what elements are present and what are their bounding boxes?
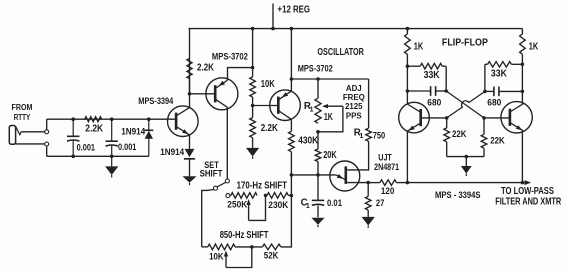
wire right coupling column [484,64,486,91]
wire Q4 emitter down [406,131,408,182]
svg-text:1: 1 [310,107,314,114]
svg-text:2125: 2125 [345,102,363,111]
ground (input network) [111,156,113,166]
junction pot R1 top [316,77,320,81]
wire 750 to UJT base-2 [347,141,368,170]
pot R19 wiper arrow [224,251,228,257]
junction QL collector / 680 [406,89,410,93]
wire C1 bottom lead [317,206,319,218]
svg-text:MPS - 3394S: MPS - 3394S [435,190,481,201]
wire input signal line [47,118,176,120]
junction C3 bottom / ground tap [110,155,114,159]
resistor R8 750 [366,128,372,141]
wire 120 to flip-flop [396,182,407,184]
wire top terminal up to signal line [46,119,48,130]
wire Q4 base [421,117,447,119]
capacitor C4 680 (left) [407,90,430,92]
svg-text:10K: 10K [261,79,275,90]
capacitor C5 680 (right) [485,90,494,92]
svg-text:FLIP-FLOP: FLIP-FLOP [442,37,488,48]
svg-text:33K: 33K [424,70,440,81]
wire R3 bottom to Q1 collector segment [189,79,191,94]
wire feed line down to 750 [368,79,370,128]
resistor R16 22K (right) [481,134,487,148]
svg-text:22K: 22K [452,129,467,140]
jack J1 tip [16,126,22,135]
resistor R14 33K (right) [485,63,488,65]
ground (Q1 emitter) [183,176,197,183]
resistor R20 52K [262,244,280,250]
junction Q2 emitter / divider line [251,66,255,70]
svg-text:250K: 250K [227,200,247,211]
wire R3 top to rail [189,29,191,59]
pot R1 wiper arrow [322,104,328,108]
svg-text:MPS-3394: MPS-3394 [138,96,174,107]
svg-text:170-Hz SHIFT: 170-Hz SHIFT [237,180,287,191]
wire 27 top lead [367,183,369,197]
svg-text:1N914: 1N914 [160,147,185,157]
wire pot R1 wiper loop [318,106,343,132]
ground (C1) [311,218,324,225]
svg-text:20K: 20K [323,150,337,161]
wire cross-coupling right-to-left (with hop) [447,91,485,118]
diode D2 1N914 (emitter, anode up) [185,149,195,157]
svg-text:1N914: 1N914 [121,127,146,137]
junction left coupling node [444,89,448,93]
capacitor C3 0.001 [106,140,118,142]
svg-text:850-Hz SHIFT: 850-Hz SHIFT [220,230,269,241]
junction 170-Hz branch / column [290,194,294,198]
wire left 1K top lead [406,29,408,34]
wire QL collector line [406,54,408,104]
output arrow TO LOW-PASS [525,180,531,185]
junction QR collector / 680 [521,90,525,94]
svg-text:27: 27 [376,198,385,208]
junction UJT emitter node [316,173,320,177]
svg-text:0.01: 0.01 [327,198,342,208]
wire 22K common [447,156,484,158]
wire Q5 base [484,117,509,119]
svg-text:MPS-3702: MPS-3702 [212,52,248,63]
junction right coupling node [483,90,487,94]
junction D1 anode [147,117,151,121]
resistor R9 27 [365,196,371,210]
jack J1 FROM RTTY plug body [9,126,15,145]
wire Q2 emitter to rail tap [228,68,253,81]
transistor Q2 MPS-3702 [206,78,238,110]
resistor R13 1K (right) [520,34,526,54]
junction C3 top [110,117,114,121]
wire plug sleeve to bottom terminal [16,143,45,145]
svg-text:SHIFT: SHIFT [200,169,223,180]
wire oscillator feed line [291,78,368,80]
wire R5 bottom to ground [252,138,254,148]
wire Q2 collector down to switch [226,107,228,178]
resistor R3 2.2K (Q1 collector load) [187,59,192,79]
svg-text:1K: 1K [529,41,539,52]
junction C2 top [71,117,75,121]
wire Q3 collector down [290,119,292,132]
junction emitter feed at Q3 line [290,77,294,81]
svg-text:OSCILLATOR: OSCILLATOR [317,47,364,58]
junction 22K common / ground [465,155,469,159]
junction Q3 emitter line at rail [290,27,294,31]
svg-text:FILTER AND XMTR: FILTER AND XMTR [495,197,561,208]
wire Q1 emitter down [189,135,191,149]
wire R18 to column [288,194,291,196]
svg-text:MPS-3702: MPS-3702 [298,64,333,75]
switch S1 contact C (to 170-Hz branch) [226,194,230,198]
wire +12V supply rail [189,28,523,30]
wire emitter-node column to 170Hz node [290,175,292,196]
svg-text:2.2K: 2.2K [85,124,103,135]
transistor Q1 MPS-3394 [168,106,199,137]
node +12 REG stem [272,4,274,29]
resistor R4 10K [250,77,256,97]
svg-text:2.2K: 2.2K [197,62,214,73]
wire output line [407,182,525,184]
wire pot R1 top lead [317,79,319,98]
svg-text:1K: 1K [414,41,424,52]
wire 27 to ground [367,210,369,217]
svg-text:RTTY: RTTY [14,112,31,122]
wire Q3 emitter up to rail [290,29,292,92]
junction 430K line / emitter node [290,173,294,177]
resistor R10 120 [380,180,397,186]
svg-text:FREQ: FREQ [343,93,365,102]
wire left coupling column [445,66,447,91]
wire R19 wiper loop [226,247,252,268]
wire cross-coupling left-to-right [446,91,484,118]
junction QL collector / 33K [406,64,410,68]
svg-text:680: 680 [487,98,501,109]
junction Q1 collector / Q2 base [188,92,192,96]
svg-text:ADJ: ADJ [346,84,362,93]
svg-text:33K: 33K [491,68,507,79]
svg-text:120: 120 [381,186,395,196]
resistor R5 2.2K [250,118,256,138]
junction R4 / R5 / Q3 base [251,104,255,108]
svg-text:230K: 230K [268,200,288,211]
junction divider line at rail [251,27,255,31]
wire Q3 base [253,105,279,107]
wire R19-R20 link [235,246,262,248]
wire C1 top lead [317,175,319,201]
capacitor C3 0.001 leads [111,119,113,141]
resistor R11 1K (left) [405,34,411,54]
wire left 22K top lead [446,118,448,128]
svg-text:PPS: PPS [346,111,362,120]
svg-text:2N4871: 2N4871 [374,162,399,172]
wire B1 to 120 [368,182,380,184]
resistor R12 33K (left) [407,65,420,67]
diode D1 1N914 leads [148,119,150,130]
junction R19 / R20 [250,245,254,249]
junction Q4 emitter / output line [406,181,410,185]
ground (R9) [362,217,375,226]
wire left 22K bottom [446,142,448,157]
junction +12 REG / rail [271,27,275,31]
transistor Q3 MPS-3702 [270,90,301,121]
resistor R2 2.2K (series input) [85,117,102,122]
svg-text:2.2K: 2.2K [261,123,278,134]
wire pot R1 to 20K [317,132,319,149]
switch S1 contact A (from Q2 collector) [225,179,229,183]
svg-text:1: 1 [359,133,363,140]
svg-text:430K: 430K [298,136,318,147]
junction QR collector / 33K [521,63,525,67]
capacitor C2 0.001 [67,135,79,137]
wire right 22K bottom [483,148,485,156]
wire D2 cathode to ground [189,159,191,177]
svg-text:22K: 22K [490,135,505,146]
wire Q5 emitter down [521,131,523,183]
junction pot bottom / loop [316,130,320,134]
wire column down to 850-Hz branch [281,196,292,247]
wire R17 wiper loop [249,195,266,220]
svg-text:+12 REG: +12 REG [278,4,311,15]
wire plug tip to top terminal [21,131,44,133]
potentiometer R17 250K [231,193,257,199]
UJT emitter wire [291,174,336,176]
wire bottom terminal down to return line [46,146,48,156]
pot R17 wiper arrow [246,199,250,205]
wire Q1 collector up [189,59,191,108]
resistor R15 22K (left) [444,128,450,142]
switch S1 pole B [214,186,218,190]
potentiometer R1 1K [315,98,321,123]
wire 170Hz from contact [230,195,231,197]
junction left 1K at rail [406,27,410,31]
wire R4 bottom to node [252,97,254,118]
resistor R6 430K [289,131,295,151]
svg-text:680: 680 [427,98,441,109]
junction Q5 emitter / output line [521,181,525,185]
transistor Q4 MPS-3394S (left) [399,102,430,133]
capacitor C1 0.01 [312,199,324,201]
wire 850Hz left lead [202,246,208,248]
junction right 1K at rail / rail end [521,29,523,34]
terminal bottom circle [45,142,49,146]
junction UJT B1 / 27 / 120 [366,181,370,185]
transistor Q5 MPS-3394S (right) [501,102,532,133]
junction Q5 base / 22K [482,116,486,120]
switch S1 arm [217,182,226,187]
svg-text:0.001: 0.001 [77,142,95,152]
wire R7 bottom to UJT emitter node [317,162,319,175]
terminal top circle [45,130,49,134]
ground (flip-flop) [465,157,467,166]
svg-text:10K: 10K [209,252,224,263]
svg-text:52K: 52K [264,251,279,262]
svg-text:1: 1 [306,203,310,210]
svg-text:0.001: 0.001 [118,142,136,152]
junction R17 / R18 [264,194,268,198]
wire Q2 base [190,93,216,95]
svg-text:FROM: FROM [12,102,33,112]
wire input return line [47,155,149,157]
wire QR collector line [521,54,523,104]
resistor R7 20K [315,149,321,162]
svg-text:1K: 1K [324,112,333,123]
ground (R5) [246,148,259,157]
junction C2 bottom [71,155,75,159]
svg-text:750: 750 [373,131,386,141]
wire divider line top [252,29,254,77]
wire R6 bottom to emitter node [290,152,292,175]
diode D1 1N914 (clamp, cathode up) [144,129,153,131]
UJT base-1 wire [347,182,368,184]
wire right 22K top lead [483,118,485,134]
wire S1 pole to 850-Hz branch [202,190,214,247]
junction Q4 base / 22K [445,116,449,120]
resistor R18 230K [267,193,288,199]
transistor U1 UJT 2N4871 [330,161,360,191]
potentiometer R19 10K [208,244,235,250]
capacitor C2 0.001 leads [72,119,74,136]
